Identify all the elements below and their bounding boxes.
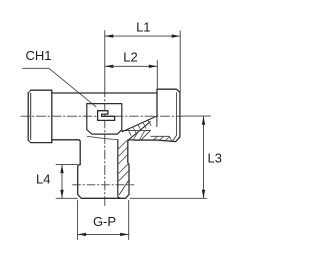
wire branch thread chamfer diagonal (119, 180, 128, 194)
hex cone diagonal D1 (122, 116, 156, 132)
wire internal thread line (151, 136, 172, 141)
node branch vertical centerline (104, 88, 106, 207)
node label CH1 with leader (23, 48, 96, 107)
wire G-P extension lines (78, 201, 129, 240)
branch stud block outline (78, 140, 134, 198)
svg-text:CH1: CH1 (26, 48, 52, 63)
node branch thread gauge centerline (73, 184, 135, 186)
hatch branch right wall (118, 140, 129, 181)
wire branch bore wall (118, 140, 120, 198)
wire bore bottom line (122, 130, 150, 132)
hex wrench flat (87, 104, 122, 135)
node dimension L1 (105, 19, 180, 38)
wire internal cone diagonal (141, 131, 150, 140)
node dimension L3 (202, 116, 222, 198)
node dimension L2 (105, 50, 158, 68)
wire L3 bottom extension line (130, 197, 207, 199)
wire right port block left edge lower fragment (156, 116, 158, 126)
hex cone diagonal D2 (129, 122, 151, 140)
svg-text:G-P: G-P (93, 214, 116, 229)
stamped logo marking (98, 111, 115, 121)
wire right port bottom outline (134, 89, 180, 141)
svg-text:L2: L2 (123, 50, 137, 65)
node main horizontal centerline (21, 115, 183, 117)
node dimension G-P (78, 214, 129, 236)
svg-text:L3: L3 (208, 151, 222, 166)
wire L2 right extension line (156, 61, 158, 89)
hatch band between D1 and D2 (128, 120, 151, 135)
node dimension L4 (36, 165, 64, 199)
wire body top edge (52, 92, 157, 94)
wire body bottom left edge into branch neck (52, 140, 80, 165)
wire L1 right extension line (179, 31, 181, 92)
wire L4 extension lines (56, 165, 78, 199)
wire right port inner chamfer line (172, 93, 176, 142)
wire L1/L2 left extension line (104, 31, 106, 89)
svg-text:L1: L1 (136, 19, 150, 34)
hex chamfer lower boundary (87, 136, 117, 139)
left port ring end (28, 90, 52, 142)
hatch right port bottom band (134, 131, 170, 140)
svg-text:L4: L4 (36, 172, 50, 187)
